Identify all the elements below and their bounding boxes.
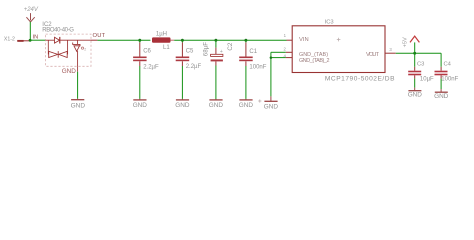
capacitor C6: [133, 40, 159, 70]
origin cross: [258, 99, 261, 102]
svg-text:L1: L1: [163, 45, 170, 51]
pin 4 stub IC3: [286, 57, 293, 59]
wire IC2 GND down: [77, 72, 79, 99]
wire IC2 loop right: [67, 40, 69, 54]
capacitor C3: [408, 53, 434, 82]
svg-text:C6: C6: [143, 48, 151, 54]
node junction X1/+24V: [29, 39, 32, 42]
svg-text:2.2µF: 2.2µF: [143, 64, 159, 70]
node junction C6: [138, 39, 141, 42]
wire VOUT rail: [396, 52, 441, 54]
wire rail corner down to C4: [440, 53, 442, 67]
svg-text:2.2µF: 2.2µF: [186, 64, 202, 70]
svg-text:100nF: 100nF: [249, 64, 266, 70]
diode D series (IC2): [55, 37, 60, 43]
svg-text:2: 2: [84, 47, 86, 51]
svg-text:+5V: +5V: [402, 37, 408, 47]
svg-text:MCP1790-5002E/DB: MCP1790-5002E/DB: [325, 75, 395, 82]
wire X1 node to IC2 IN: [30, 39, 46, 41]
origin cross IC3: [337, 38, 341, 42]
svg-text:C1: C1: [249, 49, 257, 55]
ground GND (under IC2): [71, 99, 86, 110]
wire IC2 loop left: [47, 40, 49, 54]
svg-text:10µF: 10µF: [420, 77, 434, 83]
wire tab net down: [270, 52, 272, 96]
svg-text:GND_(TAB)_2: GND_(TAB)_2: [299, 58, 330, 64]
svg-text:GND: GND: [434, 93, 449, 100]
svg-text:VIN: VIN: [299, 37, 309, 43]
ground GND (tab): [264, 96, 279, 110]
wire C4 down: [440, 79, 442, 90]
supply +24V: [24, 7, 39, 22]
svg-text:GND: GND: [133, 102, 148, 109]
node junction C1: [244, 39, 247, 42]
svg-text:IN: IN: [33, 34, 39, 40]
svg-text:RBO40-40-G: RBO40-40-G: [42, 28, 74, 34]
svg-text:GND: GND: [264, 104, 279, 111]
svg-text:VOUT: VOUT: [366, 52, 379, 58]
node junction C2: [214, 39, 217, 42]
node junction C5: [181, 39, 184, 42]
wire pin4 to tab net: [271, 57, 286, 59]
zener diode (IC2): [73, 40, 80, 66]
svg-text:GND: GND: [62, 68, 77, 75]
node junction tab: [270, 56, 273, 59]
svg-text:68µF: 68µF: [203, 42, 210, 56]
pin GND stub IC2: [77, 66, 79, 71]
capacitor C2 polarized: [203, 40, 234, 65]
svg-text:GND: GND: [408, 91, 423, 98]
svg-text:1µH: 1µH: [156, 32, 167, 38]
wire up to +5V: [414, 42, 416, 53]
ground GND (under C3): [408, 88, 423, 99]
ground GND (under C2): [209, 99, 224, 109]
wire C5 down: [181, 66, 183, 99]
pin OUT stub IC2: [91, 39, 97, 41]
ground GND (under C6): [133, 99, 148, 109]
svg-text:+: +: [220, 49, 223, 55]
svg-text:OUT: OUT: [93, 33, 106, 39]
pin 2 stub IC3: [286, 51, 293, 53]
svg-text:GND: GND: [209, 102, 224, 109]
node junction +5V/C3: [413, 52, 416, 55]
connector pin X1-2: [4, 36, 30, 42]
svg-text:IC3: IC3: [325, 19, 334, 25]
wire L1 to IC3: [174, 39, 286, 41]
ground GND (under C1): [239, 99, 254, 109]
IC2 internal top rail: [46, 39, 55, 41]
svg-text:GND: GND: [239, 102, 254, 109]
capacitor C5: [176, 40, 202, 70]
ground GND (under C5): [175, 99, 190, 109]
svg-text:X1-2: X1-2: [4, 36, 15, 42]
svg-text:C2: C2: [227, 42, 234, 50]
wire +24V to node: [29, 22, 31, 40]
svg-text:C5: C5: [186, 48, 194, 54]
IC2 dashed package box: [46, 34, 91, 66]
svg-text:C4: C4: [444, 61, 452, 67]
wire C1 down: [245, 66, 247, 99]
supply +5V: [402, 36, 419, 47]
pin VIN stub IC3: [287, 39, 293, 41]
svg-text:GND: GND: [71, 103, 86, 110]
pin VOUT stub IC3: [385, 52, 396, 54]
svg-text:+24V: +24V: [24, 7, 39, 13]
wire pin2 to tab net: [271, 51, 286, 53]
svg-text:100nF: 100nF: [441, 76, 458, 82]
inductor L1: [152, 32, 174, 51]
wire OUT to L1: [97, 39, 150, 41]
wire C6 down: [139, 66, 141, 99]
capacitor C1: [239, 40, 267, 70]
wire C3 down: [414, 79, 416, 88]
IC3 package box MCP1790: [292, 26, 385, 73]
TVS bidirectional suppressor (IC2): [49, 51, 67, 58]
wire C2 down: [215, 66, 217, 100]
ground GND (under C4): [434, 89, 449, 100]
svg-text:C3: C3: [417, 61, 424, 67]
zener marker circle: [81, 47, 83, 49]
svg-text:GND: GND: [175, 102, 190, 109]
capacitor C4: [435, 61, 459, 82]
